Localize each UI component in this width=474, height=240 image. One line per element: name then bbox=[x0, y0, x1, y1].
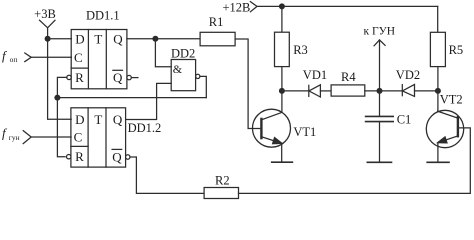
svg-text:R2: R2 bbox=[215, 173, 230, 187]
logic gate DD2 bbox=[171, 46, 200, 90]
stub Q-bar DD1.1 bbox=[132, 77, 138, 79]
input f_gun bbox=[2, 126, 31, 144]
wire VT2 collector bbox=[437, 91, 439, 111]
svg-text:VT2: VT2 bbox=[440, 92, 463, 106]
svg-text:R: R bbox=[75, 149, 84, 164]
svg-text:R5: R5 bbox=[449, 43, 464, 57]
resistor R4 bbox=[331, 70, 365, 96]
wire node to VD2 bbox=[380, 90, 403, 92]
transistor VT2 bbox=[426, 92, 463, 147]
svg-text:&: & bbox=[173, 62, 183, 76]
junction +12V / R3 bbox=[279, 3, 285, 9]
wire +3V to D input DD1.1 bbox=[48, 38, 72, 40]
transistor VT1 bbox=[253, 109, 317, 147]
svg-text:R3: R3 bbox=[293, 43, 308, 57]
DD2 output bubble bbox=[196, 74, 200, 78]
resistor R2 bbox=[204, 173, 238, 198]
wire VT2 emitter bbox=[437, 143, 439, 163]
power +12V bbox=[223, 1, 258, 15]
wire C1 top bbox=[379, 91, 381, 117]
power +3V bbox=[34, 7, 56, 28]
Q-bar output bubble bbox=[127, 75, 131, 79]
capacitor C1 bbox=[366, 112, 412, 126]
svg-text:R: R bbox=[75, 70, 84, 85]
resistor R3 bbox=[275, 32, 308, 66]
wire Q output DD1.2 to DD2 lower input bbox=[126, 83, 172, 119]
resistor R5 bbox=[430, 32, 463, 66]
svg-text:R4: R4 bbox=[341, 70, 356, 84]
resistor R1 bbox=[200, 15, 235, 46]
ground VT1 bbox=[272, 161, 293, 163]
wire R3 bottom bbox=[281, 67, 283, 91]
svg-text:Q: Q bbox=[112, 149, 122, 164]
wire Q-bar DD1.2 to R2 bbox=[130, 157, 204, 193]
svg-text:C: C bbox=[74, 129, 83, 144]
junction node C1 / VCO bbox=[377, 88, 383, 94]
junction R-net bbox=[54, 95, 60, 101]
svg-text:оп: оп bbox=[10, 55, 18, 64]
junction Q1 / DD2 input bbox=[152, 36, 158, 42]
svg-text:D: D bbox=[75, 31, 84, 46]
flip-flop DD1.2 bbox=[67, 108, 162, 167]
svg-text:Q: Q bbox=[113, 70, 123, 85]
svg-text:VD2: VD2 bbox=[396, 68, 420, 82]
wire f_gun to C input DD1.2 bbox=[31, 136, 71, 138]
wire +12V rail bbox=[257, 5, 438, 7]
wire C1 bottom bbox=[379, 122, 381, 162]
wire R-net horizontal bbox=[57, 97, 206, 99]
wire R3 top bbox=[281, 6, 283, 32]
wire +3V rail down to D input DD1.2 bbox=[48, 28, 72, 120]
wire DD2 output to R-net bbox=[200, 76, 206, 97]
svg-text:T: T bbox=[94, 31, 102, 46]
flip-flop DD1.1 bbox=[67, 9, 132, 89]
diode VD2 bbox=[396, 68, 420, 97]
svg-text:гун: гун bbox=[9, 133, 20, 142]
svg-text:VT1: VT1 bbox=[293, 125, 316, 139]
svg-text:C: C bbox=[74, 50, 83, 65]
wire R-net to R input DD1.2 bbox=[57, 98, 65, 157]
wire R input DD1.1 bbox=[57, 77, 66, 97]
wire VD2 to R5 node bbox=[415, 90, 438, 92]
R input bubble bbox=[67, 155, 71, 159]
ground C1 bbox=[367, 161, 391, 163]
wire VD1 to R4 bbox=[320, 90, 331, 92]
svg-text:D: D bbox=[75, 112, 84, 127]
svg-text:DD1.1: DD1.1 bbox=[86, 9, 120, 23]
junction node VT1 collector / R3 / VD1 bbox=[279, 88, 285, 94]
wire R4 to node bbox=[365, 90, 380, 92]
R input bubble bbox=[67, 75, 71, 79]
wire node to VD1 bbox=[282, 90, 309, 92]
wire Q output DD1.1 to R1 bbox=[127, 38, 200, 40]
svg-text:к ГУН: к ГУН bbox=[364, 26, 396, 38]
wire R1 to VT1 base bbox=[235, 39, 261, 129]
wire VT1 collector bbox=[281, 91, 283, 113]
ground VT2 bbox=[427, 161, 449, 163]
wire VT1 emitter bbox=[281, 143, 283, 162]
wire f_op to C input DD1.1 bbox=[31, 56, 71, 58]
input f_op bbox=[2, 48, 31, 64]
svg-text:Q: Q bbox=[113, 112, 123, 127]
svg-text:T: T bbox=[94, 112, 102, 127]
svg-text:DD2: DD2 bbox=[171, 46, 195, 60]
wire R5 bottom bbox=[437, 67, 439, 91]
svg-text:DD1.2: DD1.2 bbox=[128, 121, 162, 135]
svg-text:+12В: +12В bbox=[223, 1, 251, 15]
diode VD1 bbox=[303, 68, 327, 97]
wire R5 top bbox=[437, 6, 439, 32]
junction +3V / D input DD1.1 bbox=[45, 36, 51, 42]
wire DD2 upper input bbox=[155, 39, 171, 67]
junction node VT2 collector / R5 / VD2 bbox=[435, 88, 441, 94]
output to VCO (к ГУН) bbox=[364, 26, 396, 91]
svg-text:Q: Q bbox=[113, 31, 123, 46]
svg-text:C1: C1 bbox=[397, 112, 412, 126]
wire R2 to VT2 base bbox=[239, 128, 471, 193]
svg-text:+3В: +3В bbox=[34, 7, 56, 21]
svg-text:VD1: VD1 bbox=[303, 68, 327, 82]
svg-text:R1: R1 bbox=[209, 15, 224, 29]
Q-bar output bubble bbox=[126, 155, 130, 159]
